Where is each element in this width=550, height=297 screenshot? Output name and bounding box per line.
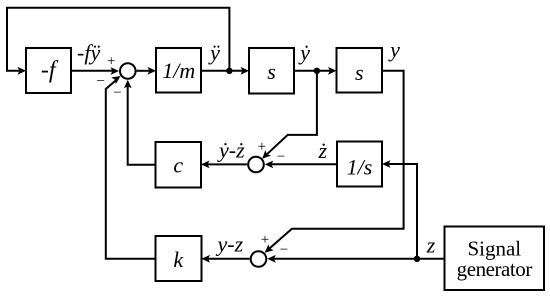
arrowhead into c (201, 161, 210, 169)
block s (second) (337, 48, 383, 93)
wire k output: left, up, diagonal into J1 lower-left (106, 78, 156, 259)
svg-text:ẏ: ẏ (298, 40, 310, 65)
svg-text:−: − (280, 242, 288, 258)
node after s1 (314, 68, 320, 74)
svg-text:s: s (355, 60, 364, 85)
svg-text:z: z (426, 233, 436, 258)
summing junction J1 (120, 63, 136, 79)
svg-text:−: − (96, 73, 104, 89)
svg-text:+: + (258, 139, 266, 155)
summing junction J2 (248, 157, 264, 173)
node after 1/m (226, 68, 232, 74)
arrowhead into J3 right from z (267, 255, 276, 263)
wire z tap up into 1/s (386, 164, 417, 259)
wire 1/s output zdot to J2 (268, 163, 337, 165)
block Signal generator (445, 227, 545, 291)
arrowhead into -f (18, 67, 27, 75)
arrowhead into J2 right from 1/s (265, 161, 274, 169)
svg-text:ÿ: ÿ (208, 40, 220, 65)
arrowhead into J3 top-right diagonal (265, 244, 274, 253)
wire 1/m to s1 with node (201, 70, 245, 72)
svg-text:+: + (107, 54, 115, 70)
svg-text:-fÿ: -fÿ (77, 40, 100, 65)
block c (156, 142, 202, 188)
arrowhead into J2 top-right diagonal (262, 150, 271, 159)
arrowhead into 1/s (382, 160, 391, 168)
block k (156, 236, 202, 281)
svg-text:k: k (173, 247, 184, 272)
node z (414, 256, 420, 262)
svg-text:1/s: 1/s (347, 155, 373, 180)
svg-text:−: − (277, 149, 285, 165)
wire J2 output ydot-zdot to c (205, 163, 247, 165)
arrowhead into J1 left (111, 67, 120, 75)
arrowhead into s1 (241, 67, 250, 75)
wire ydot tap: down from node, left jog, diagonal into J2 (264, 71, 317, 157)
svg-text:ż: ż (318, 138, 328, 163)
wire s2 output y: right, down, left, diagonal into J3 (266, 71, 403, 251)
arrowhead into J1 bottom from c (124, 80, 132, 89)
arrowhead into J1 lower-left from k (111, 76, 120, 84)
block -f (26, 48, 71, 93)
wire J3 output y-z to k (206, 258, 250, 260)
svg-text:s: s (267, 59, 276, 84)
wire s1 to s2 with node (294, 70, 333, 72)
svg-text:−: − (113, 85, 121, 101)
svg-text:y: y (388, 37, 400, 62)
svg-text:1/m: 1/m (162, 58, 195, 83)
svg-text:+: + (261, 232, 269, 248)
svg-text:c: c (173, 153, 183, 178)
arrowhead into s2 (328, 67, 337, 75)
arrowhead into 1/m (148, 67, 157, 75)
summing junction J3 (251, 251, 267, 267)
svg-text:y-z: y-z (216, 232, 244, 257)
block s (first integrator-differentiator) (249, 48, 294, 94)
wire z line: Signal generator to J3 with node (271, 258, 445, 260)
block 1/m (156, 48, 201, 93)
wire feedback loop top: from node after 1/m up, left across top, down, into -f (7, 8, 229, 71)
wire -f output to summing junction J1 (71, 70, 116, 72)
wire c output up into J1 bottom (128, 84, 156, 165)
svg-text:generator: generator (457, 257, 533, 281)
block 1/s (337, 142, 382, 187)
arrowhead into k (202, 255, 211, 263)
svg-text:ẏ-ż: ẏ-ż (217, 138, 245, 163)
wire J1 to 1/m (137, 70, 152, 72)
